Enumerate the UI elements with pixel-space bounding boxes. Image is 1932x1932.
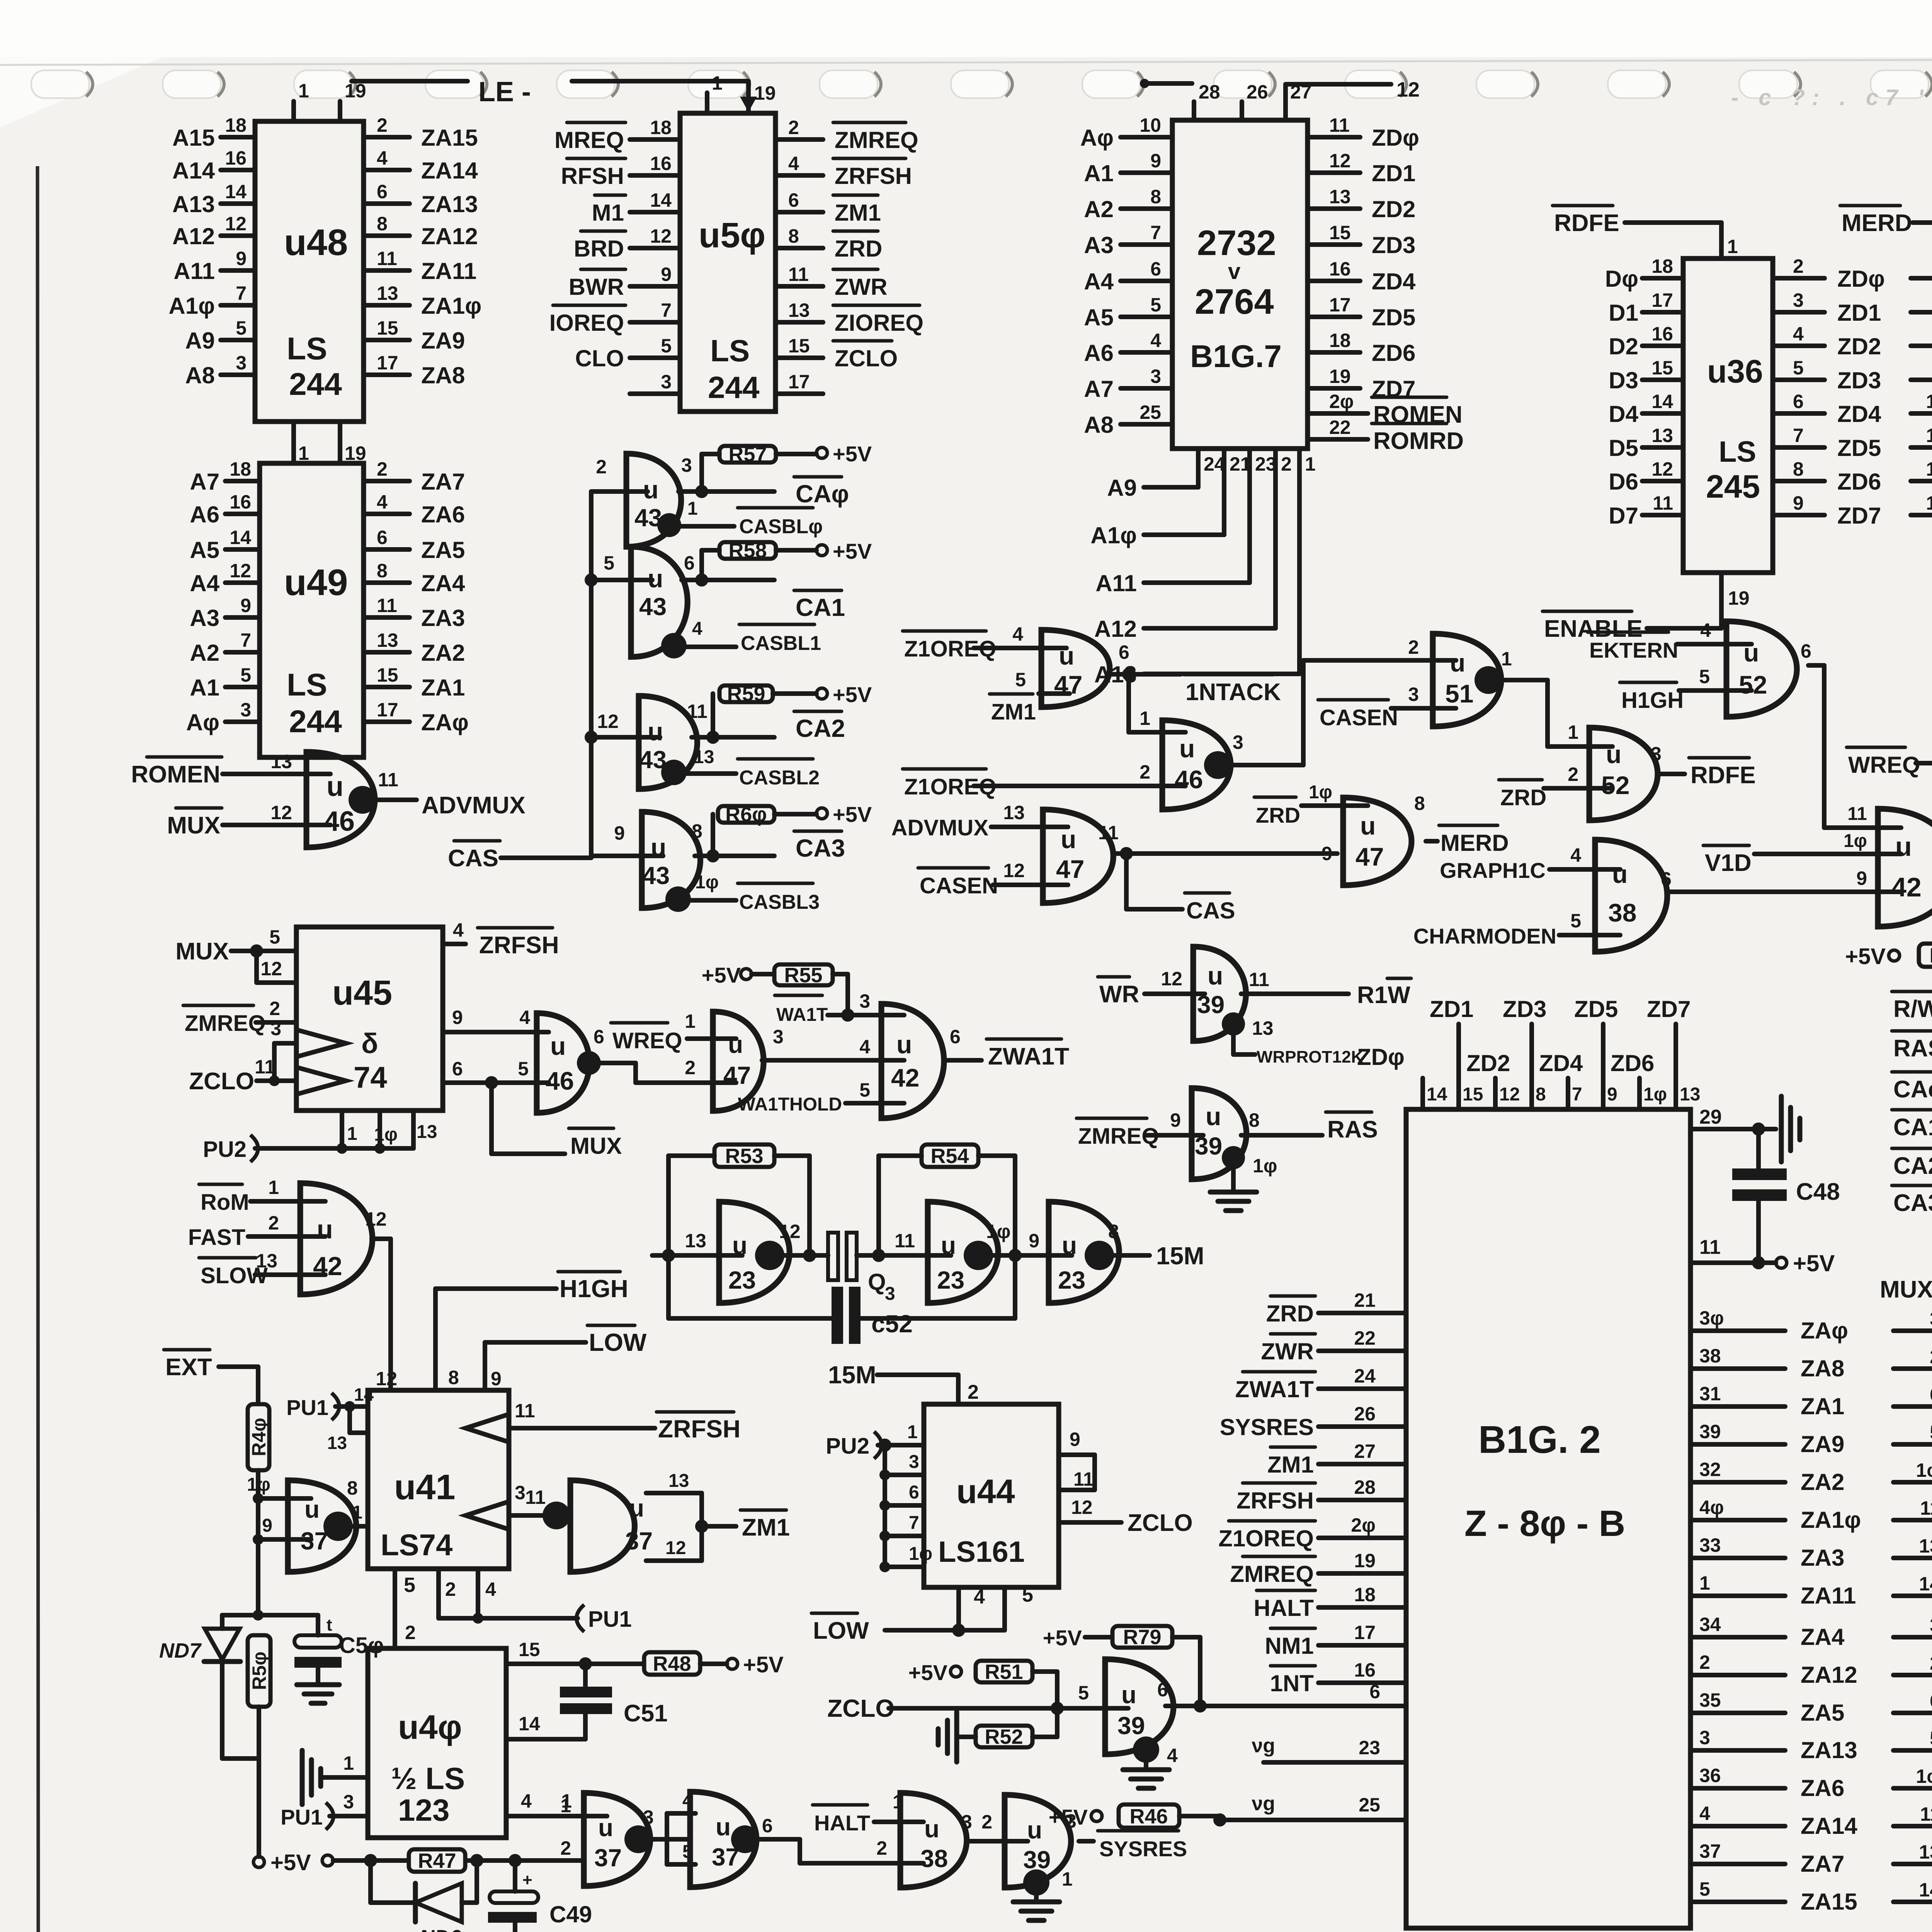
svg-text:A1: A1: [1084, 160, 1114, 186]
svg-text:BRD: BRD: [574, 236, 624, 262]
svg-text:C49: C49: [549, 1901, 592, 1927]
svg-text:13: 13: [270, 751, 292, 772]
pin 4 output ZA14 of U48: [364, 168, 410, 172]
inverter bubble WREQ: [577, 1051, 601, 1075]
svg-text:MERD: MERD: [1842, 210, 1912, 236]
svg-text:11: 11: [515, 1400, 535, 1422]
svg-text:ADVMUX: ADVMUX: [422, 792, 526, 819]
pin 9 input of U33: [1911, 378, 1932, 382]
svg-text:5: 5: [1150, 294, 1161, 316]
gate U43d NAND (-> CA3/CASBL3): [591, 854, 663, 858]
svg-text:1φ: 1φ: [374, 1124, 398, 1145]
svg-text:A9: A9: [185, 328, 215, 354]
svg-text:ZD4: ZD4: [1539, 1050, 1583, 1076]
svg-text:u: u: [651, 833, 666, 862]
gate U47e NAND: [713, 1012, 764, 1111]
svg-text:MUX: MUX: [167, 812, 220, 839]
svg-text:12: 12: [650, 225, 672, 247]
gate U46b NAND: [1162, 720, 1231, 810]
pin 5 input A5 of ROM: [1121, 315, 1172, 319]
svg-text:R54: R54: [930, 1145, 969, 1168]
pin 3 clock tie: [269, 1075, 280, 1086]
svg-text:22: 22: [1354, 1327, 1376, 1349]
svg-text:17: 17: [377, 699, 398, 721]
wire to U37d: [652, 1837, 690, 1842]
svg-text:EXT: EXT: [165, 1354, 212, 1381]
svg-text:15: 15: [788, 335, 810, 357]
svg-text:A2: A2: [190, 640, 219, 666]
pin 16 input A6 of U49: [225, 512, 260, 516]
pin 6 output ZA5 of U49: [364, 547, 410, 552]
svg-text:LS: LS: [710, 333, 750, 368]
svg-text:LOW: LOW: [589, 1328, 647, 1356]
power +5V feed: [322, 1855, 333, 1866]
pin 4 output ZRFSH: [443, 942, 466, 946]
svg-text:3: 3: [1066, 1810, 1077, 1832]
wire U37d to U38b: [754, 1837, 800, 1842]
pin 15 data ZD1 of CPU: [1456, 1024, 1461, 1109]
gate U42b NAND (-> WREQ): [1878, 809, 1932, 927]
svg-text:74: 74: [354, 1060, 387, 1094]
svg-text:14: 14: [1427, 1084, 1447, 1105]
svg-text:14: 14: [225, 181, 247, 202]
svg-text:A8: A8: [185, 362, 215, 388]
svg-text:52: 52: [1739, 670, 1767, 699]
svg-text:11: 11: [1098, 822, 1119, 844]
wire CPU pin 31 to U34 pin 6 node ZA1: [1690, 1404, 1785, 1409]
svg-text:ZMREQ: ZMREQ: [835, 127, 918, 153]
pin 25 NC of CPU: [1220, 1818, 1406, 1822]
svg-text:+5V: +5V: [270, 1850, 311, 1875]
svg-text:+5V: +5V: [1793, 1250, 1835, 1276]
inverter bubble U46b: [1204, 751, 1232, 779]
wire CPU pin 35 to U35 pin 6 node ZA5: [1690, 1711, 1785, 1715]
pin 5 input A9 of U48: [221, 338, 255, 342]
svg-text:u: u: [1450, 648, 1465, 677]
svg-text:5: 5: [518, 1058, 529, 1080]
svg-text:1: 1: [352, 1502, 362, 1523]
svg-text:13: 13: [1003, 802, 1025, 823]
svg-text:33: 33: [1699, 1534, 1721, 1556]
svg-text:9: 9: [491, 1368, 502, 1389]
pin 19 output ZD7 of ROM: [1308, 386, 1360, 391]
svg-text:2: 2: [1568, 764, 1578, 785]
svg-text:1NTACK: 1NTACK: [1185, 679, 1281, 706]
wire CA0 output: [679, 489, 774, 494]
svg-text:2: 2: [377, 114, 388, 136]
svg-text:1: 1: [343, 1752, 354, 1774]
svg-text:WA1T: WA1T: [776, 1005, 828, 1025]
inverter bubble U46a: [349, 786, 376, 814]
svg-text:3φ: 3φ: [1699, 1307, 1724, 1329]
svg-text:ZRD: ZRD: [835, 236, 882, 262]
wire CPU pin 37 to U35 pin 13 node ZA7: [1690, 1862, 1785, 1866]
pin 17 output ZD5 of ROM: [1308, 315, 1360, 319]
svg-text:16: 16: [650, 153, 672, 174]
svg-text:13: 13: [1680, 1084, 1700, 1105]
wire CPU pin 38 to U34 pin 2 node ZA8: [1690, 1366, 1785, 1371]
svg-text:9: 9: [1150, 150, 1161, 172]
svg-text:u: u: [1061, 825, 1076, 854]
wire HIGH to U41 pin8: [435, 1286, 556, 1291]
svg-text:LS161: LS161: [938, 1536, 1025, 1568]
svg-text:u: u: [1360, 811, 1376, 840]
svg-text:u: u: [1207, 961, 1223, 990]
svg-text:8: 8: [1150, 186, 1161, 207]
svg-text:15: 15: [377, 317, 398, 339]
svg-text:34: 34: [1699, 1614, 1721, 1635]
pin 17 input D1 of U36: [1642, 310, 1683, 315]
power +5V: [776, 548, 816, 553]
svg-text:ZA3: ZA3: [1801, 1545, 1844, 1571]
svg-text:12: 12: [665, 1538, 686, 1558]
svg-text:244: 244: [289, 704, 342, 739]
svg-text:WRPROT12K: WRPROT12K: [1257, 1048, 1363, 1066]
svg-text:12: 12: [1499, 1084, 1520, 1105]
wire CPU pin 1 to U34 pin 14 node ZA11: [1690, 1594, 1785, 1598]
svg-text:9: 9: [1321, 843, 1332, 864]
pin 4 output ZRFSH of U50: [776, 173, 823, 178]
pin 17 output nc of U50: [776, 391, 823, 396]
gate U39b NAND (ZMREQ -> RAS): [1192, 1088, 1247, 1179]
svg-text:9: 9: [1070, 1429, 1080, 1450]
pin 6 output ZM1 of U50: [776, 210, 823, 214]
svg-text:5: 5: [661, 335, 672, 357]
pin 13 output ZIOREQ of U50: [776, 320, 823, 325]
svg-text:R46: R46: [1129, 1805, 1168, 1828]
svg-text:C51: C51: [624, 1700, 668, 1727]
svg-text:R55: R55: [784, 964, 822, 987]
pin 15 output ZD3 of ROM: [1308, 242, 1360, 247]
svg-text:11: 11: [788, 264, 809, 285]
svg-text:+5V: +5V: [1043, 1626, 1082, 1650]
svg-text:11: 11: [378, 769, 398, 791]
svg-text:8: 8: [1793, 458, 1804, 480]
pin 9 input A1 of ROM: [1121, 170, 1172, 175]
svg-text:17: 17: [1329, 294, 1351, 316]
svg-text:ZA4: ZA4: [421, 570, 465, 596]
svg-text:Aφ: Aφ: [186, 709, 219, 735]
svg-text:u36: u36: [1707, 353, 1763, 389]
pin 15 output ZCLO of U50: [776, 355, 823, 360]
wire CPU pin 33 to U34 pin 13 node ZA3: [1690, 1556, 1785, 1560]
wire stub above pin28: [1143, 81, 1192, 86]
pins 4,5 loop of U37d: [665, 1813, 669, 1864]
svg-text:ZA14: ZA14: [1801, 1813, 1857, 1839]
svg-text:6: 6: [762, 1815, 773, 1837]
svg-text:1NT: 1NT: [1270, 1670, 1314, 1696]
svg-text:ZCLO: ZCLO: [1128, 1510, 1193, 1536]
wire U42c out to U41 pin12: [388, 1239, 393, 1390]
svg-text:5: 5: [1699, 1878, 1710, 1900]
svg-text:9: 9: [452, 1007, 463, 1028]
pin 16 input 1NT of CPU: [1318, 1680, 1406, 1685]
svg-text:7: 7: [1572, 1084, 1582, 1105]
svg-text:1φ: 1φ: [1643, 1084, 1667, 1105]
svg-text:18: 18: [230, 458, 251, 480]
pin 18 input A7 of U49: [225, 479, 260, 483]
svg-text:32: 32: [1699, 1459, 1721, 1480]
pin 8 data ZD3 of CPU: [1529, 1024, 1534, 1109]
svg-text:8: 8: [448, 1367, 459, 1388]
svg-text:CA1: CA1: [1893, 1114, 1932, 1141]
svg-text:u: u: [1895, 832, 1912, 862]
svg-text:A14: A14: [172, 158, 215, 184]
svg-text:ZA2: ZA2: [1801, 1469, 1844, 1495]
gate U51 NAND: [1433, 634, 1501, 726]
svg-text:11: 11: [1699, 1236, 1721, 1259]
svg-text:A1: A1: [190, 675, 219, 701]
svg-text:+5V: +5V: [743, 1652, 784, 1677]
IC U45 (S74 flip-flop): [296, 927, 443, 1111]
svg-text:17: 17: [1651, 289, 1673, 311]
pin 2 output ZMREQ of U50: [776, 137, 823, 142]
svg-text:1: 1: [685, 1010, 696, 1032]
svg-text:u: u: [598, 1814, 613, 1842]
pin 12 input of U33: [1911, 411, 1932, 416]
svg-text:11: 11: [1920, 1497, 1932, 1519]
pin 15 input D3 of U36: [1642, 378, 1683, 382]
svg-text:13: 13: [788, 299, 810, 321]
svg-text:7: 7: [909, 1513, 919, 1533]
svg-text:8: 8: [1108, 1221, 1119, 1242]
svg-text:ZA12: ZA12: [1801, 1662, 1857, 1688]
svg-text:ZD4: ZD4: [1837, 401, 1881, 427]
svg-text:4: 4: [521, 1790, 532, 1812]
wire LOW to U41 pin9: [485, 1340, 586, 1345]
wire top rail left: [352, 79, 468, 83]
svg-text:38: 38: [1608, 898, 1636, 927]
svg-text:R47: R47: [418, 1849, 456, 1872]
svg-text:CLO: CLO: [575, 345, 624, 371]
svg-text:C5φ: C5φ: [339, 1633, 384, 1658]
svg-text:26: 26: [1247, 81, 1268, 103]
wire CPU pin 5 to U35 pin 14 node ZA15: [1690, 1900, 1785, 1904]
svg-text:47: 47: [1355, 842, 1384, 871]
svg-text:R51: R51: [985, 1660, 1023, 1684]
svg-text:35: 35: [1699, 1689, 1721, 1711]
svg-text:1: 1: [1305, 453, 1316, 475]
pin 13 data ZD7 of CPU: [1673, 1024, 1678, 1109]
svg-text:11: 11: [525, 1486, 546, 1508]
svg-text:CASBL2: CASBL2: [739, 767, 820, 789]
svg-text:2: 2: [445, 1578, 456, 1600]
svg-text:ZRD: ZRD: [1256, 803, 1300, 827]
svg-text:LE -: LE -: [478, 77, 531, 107]
wire WREQ label to U47e pin1: [687, 1036, 736, 1041]
svg-text:15: 15: [519, 1639, 540, 1660]
svg-text:RFSH: RFSH: [561, 163, 624, 189]
pin 17 input NM1 of CPU: [1318, 1643, 1406, 1648]
svg-text:16: 16: [230, 491, 251, 513]
inverter bubble pin 13: [661, 760, 687, 785]
U45 bottom pins 1,10,13 to PU2: [340, 1111, 344, 1148]
svg-text:1φ: 1φ: [695, 872, 719, 893]
power +5V: [816, 808, 827, 819]
svg-text:ZA15: ZA15: [1801, 1889, 1857, 1915]
svg-text:5: 5: [1022, 1584, 1033, 1606]
svg-text:5: 5: [240, 664, 251, 686]
gate U37b NAND (-> ZM1): [543, 1502, 570, 1529]
svg-text:u: u: [1121, 1681, 1136, 1709]
svg-text:R5φ: R5φ: [248, 1651, 270, 1690]
wire U46b out to U51: [1231, 763, 1303, 767]
svg-text:ZRFSH: ZRFSH: [835, 163, 912, 189]
pin 14 input A5 of U49: [225, 547, 260, 552]
svg-text:7: 7: [236, 282, 247, 304]
svg-text:6: 6: [1661, 868, 1672, 890]
svg-text:37: 37: [594, 1844, 622, 1872]
svg-text:Z - 8φ - B: Z - 8φ - B: [1464, 1503, 1625, 1544]
svg-text:22: 22: [1329, 417, 1351, 438]
gate U46c NAND (-> WREQ): [537, 1013, 590, 1113]
svg-text:u: u: [924, 1815, 939, 1843]
svg-text:A4: A4: [190, 570, 219, 596]
wire U43 input bus: [589, 492, 594, 858]
svg-text:u: u: [1612, 860, 1628, 888]
pin 15 output ZA1 of U49: [364, 685, 410, 689]
svg-text:17: 17: [788, 371, 810, 393]
resistor R47: [409, 1849, 465, 1872]
svg-text:MUX: MUX: [1880, 1276, 1932, 1303]
svg-text:37: 37: [1699, 1840, 1721, 1862]
svg-text:SYSRES: SYSRES: [1220, 1414, 1314, 1440]
svg-text:12: 12: [1329, 150, 1351, 172]
pins 13,12 loop of U37b: [646, 1491, 702, 1495]
svg-text:+5V: +5V: [833, 802, 872, 827]
wire U52a to U42b pin11: [1822, 665, 1827, 828]
svg-text:R48: R48: [653, 1652, 691, 1675]
pin 18 input HALT of CPU: [1318, 1605, 1406, 1610]
svg-text:11: 11: [1653, 492, 1673, 514]
pin 13 input D5 of U36: [1642, 445, 1683, 450]
svg-text:12: 12: [376, 1368, 397, 1389]
svg-text:ZRD: ZRD: [1500, 785, 1546, 810]
pin 6 output ZA13 of U48: [364, 201, 410, 206]
pin 3 clock output of U41: [466, 1502, 509, 1529]
svg-text:ZWA1T: ZWA1T: [1235, 1376, 1314, 1402]
svg-text:14: 14: [1919, 1573, 1932, 1595]
svg-text:3: 3: [1930, 1614, 1932, 1636]
svg-text:13: 13: [377, 629, 398, 651]
svg-text:18: 18: [1329, 330, 1351, 351]
svg-text:18: 18: [1651, 255, 1673, 277]
capacitor C49 electrolytic: [513, 1861, 517, 1891]
pin 5 output of U36 / node ZD3: [1773, 378, 1825, 382]
pin 1 of U50: [705, 93, 709, 113]
pin 22 input ZWR of CPU: [1318, 1349, 1406, 1353]
gate U42a NAND (-> ZWAIT): [881, 1004, 944, 1118]
svg-text:8: 8: [347, 1477, 358, 1499]
pin 23 NC of CPU: [1264, 1760, 1406, 1765]
svg-text:- c ?: . c7 ' -: - c ?: . c7 ' -: [1731, 85, 1932, 110]
svg-text:5: 5: [604, 552, 614, 574]
svg-text:17: 17: [1354, 1622, 1376, 1643]
svg-text:ADVMUX: ADVMUX: [891, 815, 989, 840]
svg-text:A15: A15: [172, 125, 215, 151]
svg-text:ZD5: ZD5: [1837, 435, 1881, 461]
svg-text:ZD1: ZD1: [1372, 160, 1415, 186]
svg-text:M1: M1: [592, 200, 624, 226]
svg-text:6: 6: [1930, 1384, 1932, 1405]
svg-text:9: 9: [661, 264, 672, 285]
svg-text:ZWA1T: ZWA1T: [988, 1043, 1069, 1070]
pin 4 output of U36 / node ZD2: [1773, 344, 1825, 348]
pin 29 ground of CPU: [1690, 1127, 1776, 1131]
inverter bubble pin13: [1222, 1012, 1245, 1036]
svg-text:+5V: +5V: [908, 1660, 947, 1685]
pin 14 data ZDφ of CPU: [1420, 1078, 1425, 1109]
svg-text:4: 4: [519, 1007, 530, 1028]
svg-text:A3: A3: [190, 605, 219, 631]
U44 bottom pins 4,5: [956, 1587, 961, 1630]
svg-text:B1G. 2: B1G. 2: [1478, 1418, 1601, 1461]
svg-text:2: 2: [1139, 761, 1150, 783]
svg-text:ZA1: ZA1: [1801, 1393, 1844, 1419]
svg-text:6: 6: [950, 1026, 961, 1048]
pin 12 output ZD1 of ROM: [1308, 170, 1360, 175]
wire CPU pin 3φ to U34 pin 3 node ZAφ: [1690, 1328, 1785, 1333]
svg-text:26: 26: [1354, 1403, 1376, 1425]
inverter bubble U37c: [624, 1825, 652, 1853]
svg-text:u: u: [643, 475, 658, 504]
IC U44 (LS161 counter): [924, 1404, 1059, 1587]
svg-text:4: 4: [1012, 623, 1023, 645]
pin 8 output ZRD of U50: [776, 246, 823, 250]
svg-text:12: 12: [1071, 1497, 1093, 1518]
svg-text:3: 3: [773, 1026, 784, 1048]
svg-text:9: 9: [614, 822, 625, 844]
svg-text:2: 2: [1281, 453, 1292, 475]
svg-text:47: 47: [723, 1061, 751, 1089]
svg-text:11: 11: [1920, 1803, 1932, 1825]
svg-text:A6: A6: [190, 502, 219, 527]
svg-text:2φ: 2φ: [1329, 391, 1354, 412]
svg-text:IOREQ: IOREQ: [549, 310, 624, 336]
svg-text:R1W: R1W: [1357, 982, 1410, 1009]
pin 8 output ZA12 of U48: [364, 233, 410, 238]
wire CPU pin 3 to U35 pin 5 node ZA13: [1690, 1748, 1785, 1753]
svg-text:9: 9: [240, 595, 251, 616]
gate U23a inverter: [719, 1202, 789, 1303]
pin 2 output ZA15 of U48: [364, 135, 410, 139]
svg-text:31: 31: [1699, 1383, 1721, 1405]
svg-text:u5φ: u5φ: [699, 216, 765, 255]
svg-text:A12: A12: [172, 223, 215, 249]
svg-text:FAST: FAST: [188, 1225, 245, 1250]
svg-text:2: 2: [560, 1837, 571, 1859]
svg-text:1: 1: [1062, 1868, 1073, 1890]
svg-text:43: 43: [642, 862, 670, 889]
svg-text:A12: A12: [1094, 616, 1137, 642]
svg-text:PU2: PU2: [826, 1434, 869, 1459]
wire CA2 output: [692, 735, 774, 740]
svg-text:13: 13: [1919, 1841, 1932, 1863]
resistor R50 vertical: [222, 1613, 258, 1617]
svg-text:11: 11: [895, 1230, 915, 1252]
svg-text:CASBL3: CASBL3: [739, 891, 820, 913]
svg-text:WA1THOLD: WA1THOLD: [738, 1094, 842, 1115]
svg-text:CAφ: CAφ: [1893, 1076, 1932, 1103]
pin 11 output ZWR of U50: [776, 284, 823, 289]
pin 5 input A1 of U49: [225, 685, 260, 689]
pin 5 input of U33: [1911, 310, 1932, 315]
svg-text:RAS: RAS: [1327, 1116, 1378, 1143]
pin 7 input A1φ of U48: [221, 303, 255, 308]
svg-text:5: 5: [269, 926, 280, 948]
IC ROM 2732/2764 BIG7: [1172, 120, 1308, 449]
wire pin27 top rail: [1286, 82, 1391, 87]
